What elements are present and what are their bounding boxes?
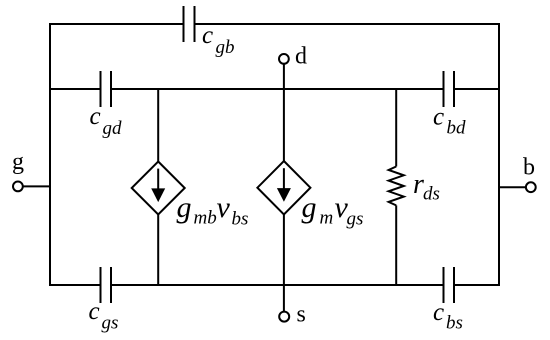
svg-text:g: g <box>12 149 24 175</box>
svg-text:mb: mb <box>194 208 217 229</box>
svg-text:c: c <box>90 103 101 130</box>
svg-text:c: c <box>433 104 444 131</box>
value label c_bd <box>433 104 466 139</box>
wire: from gmb source down to bottom rail <box>157 215 159 287</box>
wire: bottom rail segment 2 (source net) <box>111 284 444 286</box>
wire: gate stub from terminal g to left rail <box>23 185 50 187</box>
svg-text:g: g <box>177 191 192 224</box>
resistor rds (zigzag) <box>389 167 404 206</box>
svg-text:ds: ds <box>423 184 440 205</box>
wire: top rail left segment <box>49 23 184 25</box>
wire: right vertical rail (bulk net) <box>498 23 500 286</box>
svg-text:m: m <box>320 208 334 229</box>
wire: bulk stub from right rail to terminal b <box>499 186 526 188</box>
value label c_gd <box>90 103 123 139</box>
wire: from resistor rds down to bottom rail <box>395 205 397 286</box>
svg-text:b: b <box>523 154 535 180</box>
node s terminal circle <box>279 312 289 322</box>
svg-text:c: c <box>202 22 213 49</box>
node label s <box>297 302 306 328</box>
wire: middle rail segment 1 (gate to Cgd) <box>49 88 101 90</box>
dependent current source gmb*vbs (diamond) <box>132 162 185 215</box>
svg-text:c: c <box>89 298 100 325</box>
value label c_gs <box>89 298 119 334</box>
capacitor Cbs <box>444 267 455 303</box>
value label c_gb <box>202 22 235 58</box>
wire: drain stub from terminal d down to diamond <box>283 64 285 162</box>
node d terminal circle <box>279 54 289 64</box>
value label c_bs <box>433 299 463 334</box>
svg-text:bs: bs <box>446 313 463 334</box>
value label r_ds <box>413 169 440 205</box>
svg-text:s: s <box>297 302 306 328</box>
arrow inside gmb source <box>151 169 165 203</box>
wire: top rail right segment <box>195 23 501 25</box>
node label g <box>12 149 24 175</box>
wire: branch from middle rail down to source gmb (node at x=158) <box>157 89 159 162</box>
svg-text:c: c <box>433 299 444 326</box>
node label d <box>295 44 307 70</box>
svg-text:v: v <box>217 191 231 224</box>
svg-text:bs: bs <box>232 209 249 230</box>
node g terminal circle <box>13 182 23 192</box>
svg-text:gb: gb <box>216 37 235 58</box>
wire: from gm source down through bottom rail to terminal s <box>283 214 285 311</box>
svg-text:g: g <box>302 191 317 224</box>
svg-text:gd: gd <box>103 118 123 139</box>
node label b <box>523 154 535 180</box>
svg-text:gs: gs <box>102 313 119 334</box>
capacitor Cbd <box>444 71 455 107</box>
capacitor Cgd <box>101 71 112 107</box>
capacitor Cgb <box>184 6 195 42</box>
svg-text:d: d <box>295 44 307 70</box>
arrow inside gm source <box>277 168 291 202</box>
wire: middle rail segment 2 (drain net) <box>111 88 444 90</box>
dependent current source gm*vgs (diamond) <box>257 161 310 214</box>
value label g_mb v_bs <box>177 191 249 230</box>
wire: bottom rail segment 3 (Cbs to bulk) <box>454 284 500 286</box>
value label g_m v_gs <box>302 191 364 230</box>
svg-text:gs: gs <box>347 209 364 230</box>
svg-text:bd: bd <box>447 118 467 139</box>
wire: bottom rail segment 1 (gate to Cgs) <box>49 284 101 286</box>
wire: from middle rail down to resistor rds <box>395 89 397 167</box>
wire: middle rail segment 3 (Cbd to bulk) <box>454 88 500 90</box>
wire: left vertical rail (gate net) <box>49 23 51 286</box>
node b terminal circle <box>526 182 536 192</box>
capacitor Cgs <box>101 267 112 303</box>
